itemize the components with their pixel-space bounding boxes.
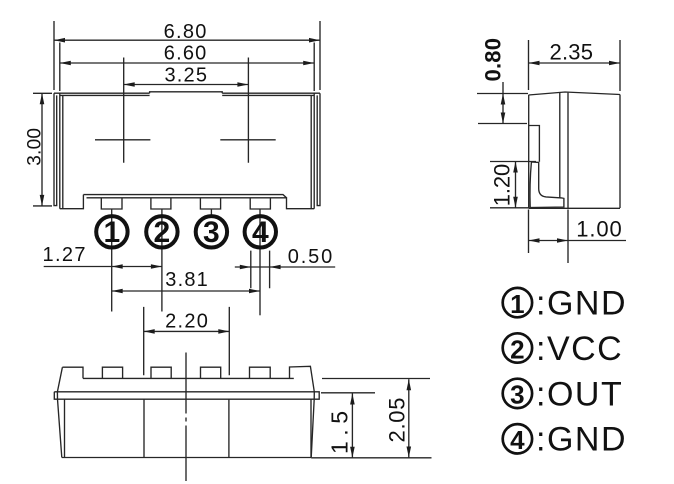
svg-text:2: 2 [510, 334, 524, 364]
legend circle 1 [503, 288, 532, 317]
pin3 center extension line [210, 209, 212, 217]
bottom view top edge [83, 377, 294, 379]
dim 2.05 bottom reference line [311, 457, 431, 459]
dim 2.05 top reference line [322, 378, 430, 380]
front view bottom shelf [60, 195, 314, 209]
legend circle 4 [503, 424, 532, 453]
arrow 1.00 left [529, 238, 540, 243]
arrow 6.60 right [303, 61, 314, 66]
arrow 6.80 left [54, 38, 65, 43]
arrow 3.81 right [249, 289, 260, 294]
legend circle 3 [503, 379, 532, 408]
arrow 0.80 bottom [501, 113, 506, 124]
arrow 3.00 top [40, 93, 45, 104]
pin4 center extension line [259, 209, 261, 315]
side view left edge [528, 95, 530, 208]
bottom view flange band [54, 392, 319, 399]
front view body top edge middle raised segment [150, 92, 223, 93]
dim 1.00 extension lines [529, 210, 569, 264]
arrow 1.20 top [513, 162, 518, 173]
front view right flange [317, 93, 320, 205]
arrow 1.5 bottom [350, 447, 355, 458]
arrow 1.27 right [151, 264, 162, 269]
arrow 3.25 left [124, 82, 135, 87]
svg-text:4: 4 [510, 425, 525, 455]
arrow 1.20 bottom [513, 197, 518, 208]
arrowheads [40, 38, 620, 458]
svg-text:6.60: 6.60 [164, 42, 208, 64]
arrow 1.5 top [350, 394, 355, 405]
svg-text:3.81: 3.81 [165, 269, 209, 291]
bottom view bump 6 with right slant [290, 366, 315, 457]
dim 1.27 line [44, 266, 162, 268]
arrow 3.81 left [112, 289, 123, 294]
dim 0.80 line [502, 82, 504, 124]
dim 0.50 line [235, 266, 335, 268]
front view body top edge outer line [54, 92, 320, 94]
pin 3 front [200, 198, 220, 209]
dim 6.80 line [54, 39, 320, 41]
svg-text:1: 1 [104, 216, 121, 249]
front view body left wall [60, 93, 63, 209]
svg-text:2: 2 [154, 216, 171, 249]
legend circle 2 [503, 333, 532, 362]
pin 1 front [101, 198, 122, 209]
dim 1.5 line [351, 394, 353, 458]
pin1 center extension line [111, 209, 113, 312]
dim 1.00 line [529, 240, 627, 242]
dimension texts [25, 21, 334, 333]
arrow 0.50 right outside [270, 265, 281, 270]
dim 2.20 extension lines [144, 307, 230, 375]
svg-text:0.50: 0.50 [288, 246, 334, 268]
arrow 2.35 right [609, 61, 620, 66]
pin 4 front [250, 198, 270, 209]
side view inner vertical lines [560, 92, 568, 208]
svg-text:6.80: 6.80 [164, 21, 208, 43]
svg-text:1.5: 1.5 [327, 410, 353, 454]
arrow 6.80 right [309, 38, 320, 43]
dim 3.81 line [112, 290, 260, 292]
svg-text:2.20: 2.20 [165, 311, 209, 333]
svg-text::OUT: :OUT [536, 375, 623, 413]
arrow 1.00 right [557, 238, 568, 243]
bottom view left pad [65, 399, 145, 457]
svg-text:4: 4 [252, 216, 269, 249]
svg-text:2.35: 2.35 [550, 40, 594, 65]
arrow 2.20 left [144, 329, 155, 334]
dim 6.80 extension lines [54, 21, 320, 90]
svg-text:3.25: 3.25 [164, 65, 208, 87]
bottom view left slant [57, 367, 62, 457]
bottom view top bumps [62, 367, 83, 378]
pin circle 3 [196, 216, 227, 247]
svg-text:2.05: 2.05 [385, 397, 410, 443]
side view bottom edge [529, 207, 620, 209]
arrow 0.80 top [501, 94, 506, 105]
dim 2.35 extension lines [529, 40, 621, 91]
pin circle 2 [146, 216, 177, 247]
arrow 2.35 left [529, 61, 540, 66]
lens cross right [220, 58, 275, 163]
dim 3.00 line [41, 93, 43, 206]
svg-text:1: 1 [510, 289, 524, 319]
svg-text:1.00: 1.00 [576, 217, 622, 242]
dim 6.60 line [60, 62, 314, 64]
svg-text::GND: :GND [536, 421, 627, 459]
dim 3.00 extension ticks [33, 93, 52, 206]
front view body top edge inner line [60, 94, 314, 96]
arrow 0.50 left outside [240, 265, 251, 270]
pin4 edge extension lines for 0.50 [251, 251, 270, 289]
svg-text:0.80: 0.80 [481, 38, 506, 82]
dim 2.35 line [529, 62, 621, 64]
dim 1.5 reference tick [321, 392, 375, 394]
svg-text::GND: :GND [536, 285, 627, 323]
dim 1.20 reference lines [490, 162, 536, 208]
svg-text:1.27: 1.27 [43, 244, 87, 266]
arrow 1.27 left [112, 264, 123, 269]
svg-text::VCC: :VCC [536, 330, 623, 368]
pin circle 1 [96, 216, 127, 247]
arrow 6.60 left [60, 61, 71, 66]
side view right edge [619, 95, 621, 209]
front view left flange [54, 93, 57, 205]
dim 6.60 extension lines [60, 43, 314, 92]
arrow 3.00 bottom [40, 195, 45, 206]
svg-text:3: 3 [510, 380, 524, 410]
side view left step [529, 126, 540, 162]
dim 3.25 line [124, 84, 249, 86]
front view body right wall [311, 93, 314, 209]
pin2 center extension line [161, 209, 163, 312]
svg-text:1.20: 1.20 [490, 163, 515, 206]
dim 2.20 line [144, 330, 230, 332]
pin 2 front [151, 198, 171, 209]
svg-text:3.00: 3.00 [25, 127, 46, 166]
pin number circles under front view [96, 216, 276, 247]
svg-text:3: 3 [203, 216, 220, 249]
pin circle 4 [245, 216, 276, 247]
dim 1.20 line [515, 162, 517, 208]
arrow 2.05 bottom [407, 447, 412, 458]
arrow 2.20 right [218, 329, 229, 334]
legend circled numbers [503, 288, 532, 454]
side view top edge [529, 92, 621, 95]
arrow 2.05 top [407, 379, 412, 390]
dim 2.05 line [408, 379, 410, 457]
bottom view right pad [229, 399, 311, 457]
arrow 3.25 right [237, 82, 248, 87]
bottom view bottom edge [62, 457, 311, 459]
side view lead outline [530, 162, 564, 208]
dim 0.80 reference lines [477, 94, 528, 124]
bottom view center line [185, 353, 187, 482]
lens cross left [95, 58, 150, 163]
